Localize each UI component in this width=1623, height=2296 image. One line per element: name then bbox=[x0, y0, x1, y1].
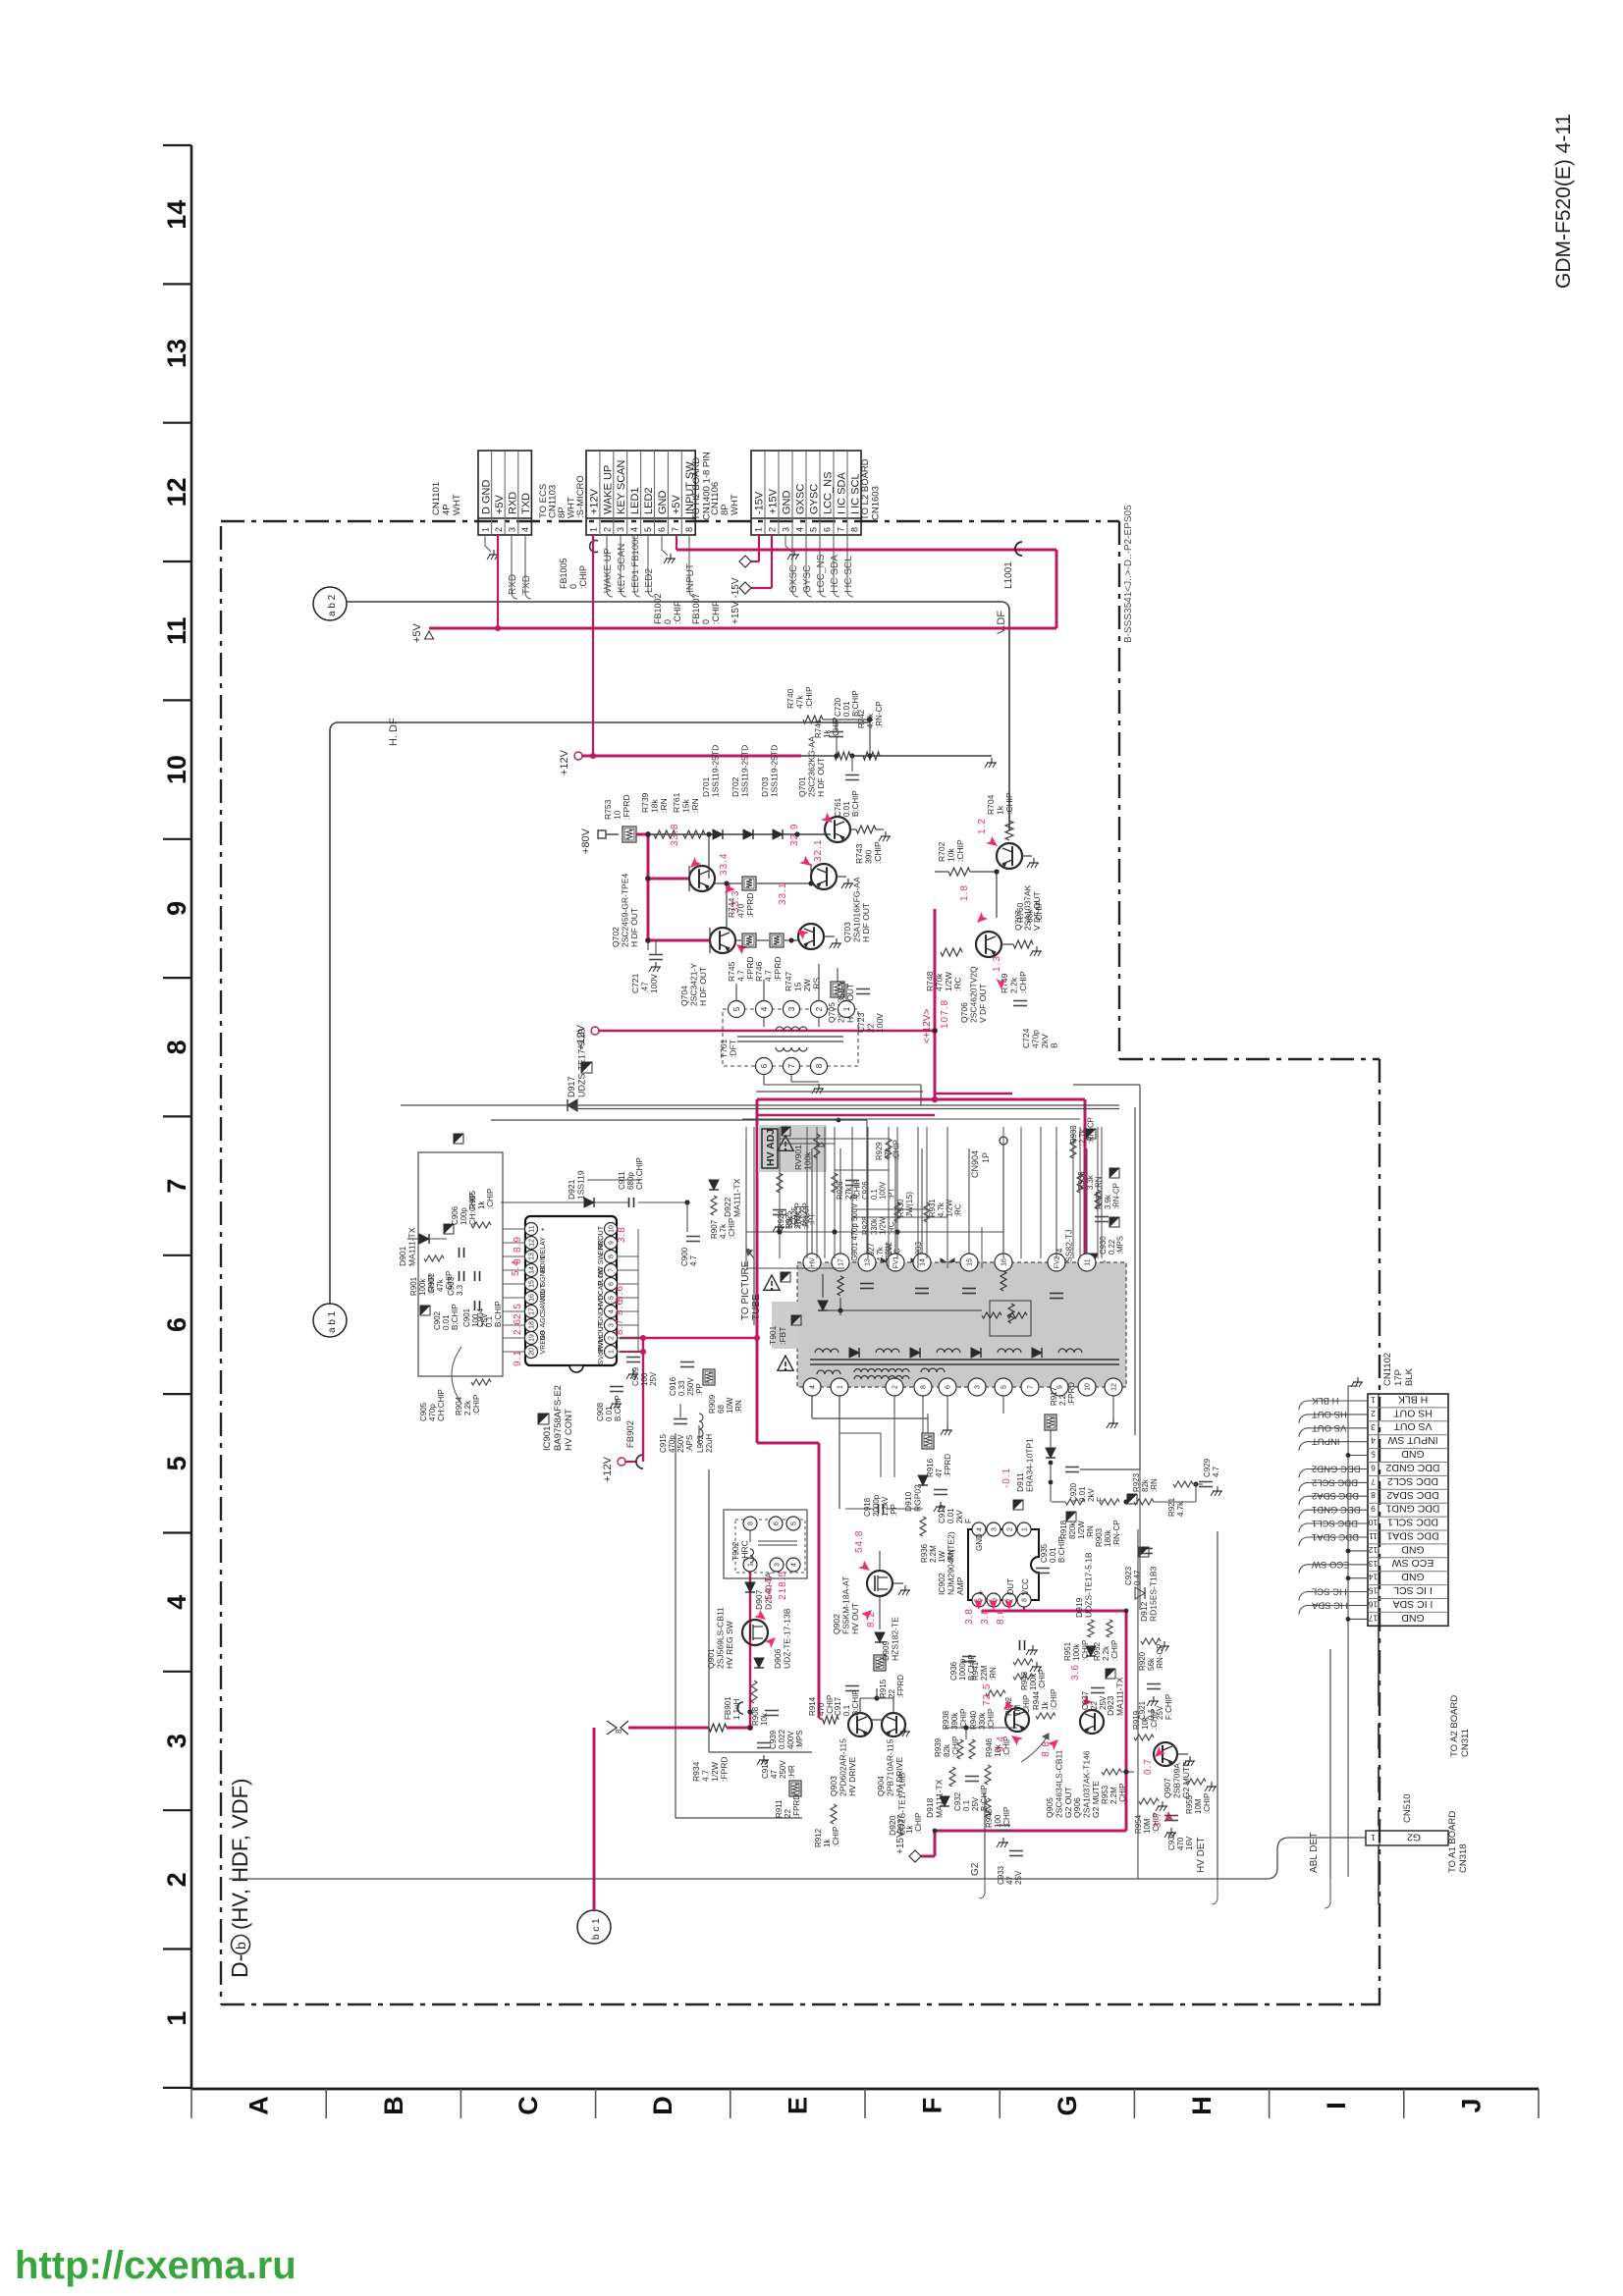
svg-text:Q902: Q902 bbox=[832, 1614, 841, 1634]
svg-text:H. DF: H. DF bbox=[388, 718, 400, 746]
svg-text:R951: R951 bbox=[1063, 1641, 1072, 1661]
svg-text:a b 2: a b 2 bbox=[327, 594, 338, 616]
svg-text:2: 2 bbox=[893, 1385, 899, 1389]
svg-text:100k: 100k bbox=[418, 1278, 427, 1296]
svg-text:-15V: -15V bbox=[754, 491, 766, 514]
svg-text:3: 3 bbox=[782, 527, 791, 532]
svg-text:GXSC: GXSC bbox=[795, 484, 807, 514]
svg-text:1: 1 bbox=[1022, 1527, 1029, 1531]
svg-text:3: 3 bbox=[775, 1563, 782, 1567]
svg-text::CHIP: :CHIP bbox=[1110, 1640, 1119, 1661]
svg-text:4.7k: 4.7k bbox=[719, 1223, 728, 1239]
svg-text:H DF OUT: H DF OUT bbox=[816, 758, 826, 797]
svg-text:3: 3 bbox=[975, 1385, 982, 1389]
svg-text:8: 8 bbox=[162, 1040, 191, 1054]
svg-text:18: 18 bbox=[529, 1321, 536, 1329]
svg-text:19: 19 bbox=[529, 1334, 536, 1342]
svg-text:7: 7 bbox=[1371, 1476, 1376, 1486]
svg-text:HV CONT: HV CONT bbox=[564, 1409, 574, 1451]
svg-text:11: 11 bbox=[1085, 1258, 1092, 1265]
svg-text:TO A2 BOARD: TO A2 BOARD bbox=[1449, 1695, 1460, 1757]
svg-text:1k: 1k bbox=[823, 729, 832, 738]
svg-text:FB1005: FB1005 bbox=[559, 558, 568, 589]
svg-text:2SJ569LS-CB11: 2SJ569LS-CB11 bbox=[716, 1607, 726, 1669]
svg-text:-: - bbox=[991, 1592, 1001, 1595]
svg-text::RC: :RC bbox=[953, 977, 963, 991]
svg-text:470k: 470k bbox=[935, 973, 945, 991]
svg-text:16V: 16V bbox=[1185, 1836, 1194, 1850]
svg-text:TO A1 BOARD: TO A1 BOARD bbox=[1447, 1811, 1458, 1873]
svg-text:B:CHIP: B:CHIP bbox=[451, 1304, 460, 1330]
svg-text:250V: 250V bbox=[779, 1760, 787, 1779]
svg-text:1k: 1k bbox=[1041, 1701, 1050, 1710]
svg-text:SG901 470p 500V :B: SG901 470p 500V :B bbox=[850, 1194, 859, 1266]
svg-text:R932: R932 bbox=[1095, 1191, 1104, 1209]
svg-text:LED1 FB1000: LED1 FB1000 bbox=[630, 534, 641, 593]
svg-text:17: 17 bbox=[839, 1258, 845, 1266]
svg-text:0.1: 0.1 bbox=[485, 1315, 494, 1327]
svg-text:0.01: 0.01 bbox=[1049, 1547, 1057, 1563]
svg-text:CN1102: CN1102 bbox=[1382, 1353, 1393, 1386]
svg-text:3.8: 3.8 bbox=[617, 1226, 627, 1243]
svg-text:1SS119-25TD: 1SS119-25TD bbox=[740, 745, 750, 797]
svg-text:D919: D919 bbox=[1074, 1597, 1084, 1618]
svg-text:4P: 4P bbox=[442, 504, 453, 515]
svg-text::CHIP: :CHIP bbox=[1150, 1709, 1159, 1730]
svg-text:Q905: Q905 bbox=[1045, 1797, 1055, 1818]
svg-text:C900: C900 bbox=[680, 1247, 689, 1266]
svg-text:B: B bbox=[1050, 1042, 1059, 1048]
svg-text:JW(1S): JW(1S) bbox=[905, 1192, 914, 1217]
svg-text:D921: D921 bbox=[567, 1179, 576, 1200]
svg-text:DDC SCL2: DDC SCL2 bbox=[1312, 1476, 1358, 1487]
svg-text:FB1007: FB1007 bbox=[691, 593, 701, 624]
svg-text:Q702: Q702 bbox=[611, 927, 621, 947]
svg-text:http://cxema.ru: http://cxema.ru bbox=[15, 2244, 297, 2287]
svg-text:1SS119-25TD: 1SS119-25TD bbox=[711, 745, 721, 797]
svg-text:R761: R761 bbox=[672, 792, 681, 813]
svg-text::FPRD: :FPRD bbox=[792, 1794, 801, 1818]
svg-text:Q901: Q901 bbox=[706, 1648, 716, 1669]
svg-text:218.5: 218.5 bbox=[778, 1571, 788, 1600]
svg-text:C926: C926 bbox=[861, 1181, 870, 1200]
svg-text:16: 16 bbox=[1001, 1258, 1008, 1266]
svg-text:HV REG SW: HV REG SW bbox=[725, 1621, 734, 1669]
svg-text::CHIP: :CHIP bbox=[1004, 792, 1014, 815]
svg-text::CHIP: :CHIP bbox=[673, 601, 682, 624]
svg-text:C923: C923 bbox=[1124, 1566, 1133, 1585]
svg-text:I IC SCL: I IC SCL bbox=[843, 556, 854, 593]
svg-text:TXD: TXD bbox=[520, 493, 532, 514]
svg-text::RS: :RS bbox=[812, 978, 822, 992]
svg-text:R938: R938 bbox=[942, 1710, 950, 1730]
svg-text:9: 9 bbox=[609, 1241, 616, 1245]
svg-text:3.6: 3.6 bbox=[1070, 1664, 1081, 1681]
svg-text::CHIP: :CHIP bbox=[1038, 1670, 1047, 1690]
svg-text:DDC SDA1: DDC SDA1 bbox=[1386, 1530, 1438, 1542]
svg-text:V.DF: V.DF bbox=[996, 611, 1007, 634]
svg-text:NC: NC bbox=[598, 1267, 605, 1277]
svg-text:C723: C723 bbox=[856, 1012, 866, 1033]
svg-text:IC901: IC901 bbox=[542, 1426, 553, 1451]
svg-text:R903: R903 bbox=[1095, 1527, 1104, 1547]
svg-text:R746: R746 bbox=[754, 961, 764, 982]
svg-text:1/2W: 1/2W bbox=[944, 972, 953, 991]
svg-text:0.01: 0.01 bbox=[605, 1406, 614, 1421]
svg-text:R915: R915 bbox=[879, 1679, 888, 1698]
svg-text:12: 12 bbox=[529, 1239, 536, 1247]
svg-text::CHIP: :CHIP bbox=[486, 1189, 495, 1209]
svg-text:4.7: 4.7 bbox=[701, 1770, 711, 1782]
svg-text:R744: R744 bbox=[727, 897, 736, 918]
svg-text:15: 15 bbox=[529, 1280, 536, 1288]
svg-text:82k: 82k bbox=[943, 1743, 951, 1757]
svg-text:10: 10 bbox=[1369, 1518, 1379, 1527]
svg-text:10k: 10k bbox=[994, 1743, 1002, 1757]
svg-text:C937: C937 bbox=[1081, 1690, 1090, 1710]
svg-text:MA111-TX: MA111-TX bbox=[732, 1178, 742, 1217]
svg-text:C901: C901 bbox=[462, 1308, 471, 1327]
svg-text:HVD: HVD bbox=[598, 1295, 605, 1309]
svg-text:100p: 100p bbox=[460, 1207, 468, 1225]
svg-text:R745: R745 bbox=[727, 961, 736, 982]
svg-text:3.8: 3.8 bbox=[980, 1608, 991, 1625]
svg-text::FPRD: :FPRD bbox=[773, 957, 783, 983]
svg-text::RN: :RN bbox=[989, 1667, 998, 1681]
svg-text::CHIP: :CHIP bbox=[951, 1736, 960, 1757]
svg-text:T902: T902 bbox=[730, 1541, 740, 1561]
svg-text:R740: R740 bbox=[785, 688, 795, 709]
svg-text:8.6: 8.6 bbox=[996, 1608, 1006, 1625]
svg-text:F:CHIP: F:CHIP bbox=[1164, 1694, 1173, 1720]
svg-text:470p: 470p bbox=[428, 1404, 437, 1421]
svg-text:DDC SCL2: DDC SCL2 bbox=[1387, 1475, 1438, 1487]
svg-text:R704: R704 bbox=[986, 794, 996, 815]
svg-text:3.8: 3.8 bbox=[964, 1608, 975, 1625]
svg-text:1/2W: 1/2W bbox=[946, 1199, 954, 1217]
svg-text:20: 20 bbox=[529, 1348, 536, 1356]
svg-text:10: 10 bbox=[613, 810, 622, 820]
svg-text:11: 11 bbox=[162, 616, 191, 645]
svg-text:15: 15 bbox=[793, 982, 803, 991]
svg-text:400V: 400V bbox=[786, 1731, 795, 1749]
svg-text:8: 8 bbox=[850, 527, 860, 532]
svg-text:4.7k: 4.7k bbox=[1176, 1501, 1185, 1517]
svg-text::RN: :RN bbox=[659, 798, 669, 813]
svg-text:1/2W: 1/2W bbox=[710, 1762, 720, 1782]
svg-text:54.8: 54.8 bbox=[854, 1530, 865, 1553]
svg-text:C917: C917 bbox=[834, 1696, 842, 1716]
svg-text:2: 2 bbox=[1007, 1527, 1014, 1531]
svg-text::MPS: :MPS bbox=[795, 1730, 804, 1749]
svg-text:I: I bbox=[1322, 2102, 1351, 2109]
svg-text:3: 3 bbox=[508, 527, 517, 532]
svg-text:68: 68 bbox=[717, 1405, 726, 1414]
svg-text:I IC SDA: I IC SDA bbox=[1393, 1598, 1434, 1610]
svg-text:4.7: 4.7 bbox=[764, 970, 774, 982]
svg-text:R955: R955 bbox=[1185, 1794, 1194, 1814]
svg-text:8.6: 8.6 bbox=[615, 1285, 625, 1302]
svg-text:100V: 100V bbox=[879, 1181, 888, 1200]
svg-text::FPRD: :FPRD bbox=[1067, 1382, 1076, 1406]
svg-text:4.7: 4.7 bbox=[1212, 1466, 1220, 1477]
svg-text:b: b bbox=[233, 1942, 248, 1949]
svg-text:0.33: 0.33 bbox=[677, 1380, 686, 1396]
svg-text:6: 6 bbox=[823, 527, 833, 532]
svg-text:FB902: FB902 bbox=[625, 1420, 636, 1448]
svg-text:3: 3 bbox=[1371, 1422, 1376, 1432]
svg-text:C932: C932 bbox=[953, 1791, 962, 1811]
svg-text:1: 1 bbox=[609, 1350, 616, 1354]
svg-text:2W: 2W bbox=[802, 979, 812, 991]
svg-text:.47: .47 bbox=[640, 982, 650, 993]
svg-text:14: 14 bbox=[162, 200, 191, 230]
svg-text:6: 6 bbox=[774, 1522, 781, 1525]
svg-text:C933: C933 bbox=[997, 1865, 1005, 1885]
svg-text::CHIP: :CHIP bbox=[1203, 1793, 1212, 1814]
svg-text:J: J bbox=[1456, 2098, 1486, 2112]
svg-text:1.3: 1.3 bbox=[992, 955, 1002, 972]
svg-text:6: 6 bbox=[760, 1063, 769, 1068]
svg-text:2.2M: 2.2M bbox=[1109, 1787, 1118, 1804]
svg-text:NJM2904M(TE2): NJM2904M(TE2) bbox=[947, 1531, 956, 1595]
svg-text:470: 470 bbox=[1176, 1837, 1185, 1850]
svg-text:+12V: +12V bbox=[589, 488, 601, 514]
svg-text:HS OUT: HS OUT bbox=[1393, 1407, 1433, 1418]
svg-text:FV2: FV2 bbox=[1055, 1255, 1061, 1268]
svg-text:G2 MUTE: G2 MUTE bbox=[1091, 1781, 1101, 1818]
svg-text:2000p: 2000p bbox=[872, 1494, 881, 1517]
svg-text:ABL DET: ABL DET bbox=[1309, 1833, 1320, 1873]
svg-text:1.1uH: 1.1uH bbox=[732, 1698, 741, 1720]
svg-text:1: 1 bbox=[480, 527, 490, 532]
svg-text:0.01: 0.01 bbox=[842, 701, 851, 717]
svg-text:BLK: BLK bbox=[1404, 1367, 1415, 1386]
svg-text:2: 2 bbox=[602, 527, 612, 532]
svg-text:R907: R907 bbox=[710, 1219, 719, 1239]
svg-text:WAKE UP: WAKE UP bbox=[603, 548, 614, 593]
svg-text:470p: 470p bbox=[1031, 1030, 1041, 1048]
svg-text:11: 11 bbox=[1369, 1531, 1378, 1541]
svg-text:47: 47 bbox=[770, 1770, 779, 1779]
svg-text:R742: R742 bbox=[857, 709, 866, 728]
svg-text:0.1: 0.1 bbox=[842, 1704, 851, 1716]
svg-text:KEY SCAN: KEY SCAN bbox=[617, 544, 627, 593]
svg-text:AGC: AGC bbox=[540, 1312, 547, 1327]
svg-text::CHIP: :CHIP bbox=[728, 1218, 736, 1239]
svg-text:13: 13 bbox=[529, 1253, 536, 1260]
svg-text:33.4: 33.4 bbox=[719, 853, 730, 876]
svg-text:C929: C929 bbox=[1203, 1458, 1212, 1477]
svg-text:HV DET: HV DET bbox=[1196, 1837, 1207, 1873]
svg-text:C721: C721 bbox=[630, 973, 640, 993]
svg-text:R901: R901 bbox=[409, 1276, 418, 1296]
svg-text:Q706: Q706 bbox=[959, 1002, 969, 1023]
svg-text:13: 13 bbox=[1369, 1559, 1379, 1569]
svg-text:3.9k: 3.9k bbox=[1104, 1195, 1112, 1209]
svg-text:R939: R939 bbox=[934, 1737, 943, 1757]
svg-text:DDC SCL1: DDC SCL1 bbox=[1312, 1518, 1358, 1528]
svg-text:13: 13 bbox=[162, 339, 191, 368]
svg-text:R953: R953 bbox=[1101, 1785, 1109, 1804]
svg-text:0.01: 0.01 bbox=[842, 801, 851, 817]
svg-text:+5V: +5V bbox=[671, 494, 682, 514]
svg-text:12: 12 bbox=[1369, 1545, 1379, 1555]
svg-text:HS OUT: HS OUT bbox=[1312, 1409, 1347, 1419]
svg-text:C908: C908 bbox=[596, 1402, 605, 1421]
svg-text:1: 1 bbox=[754, 527, 764, 532]
svg-text:2.2k: 2.2k bbox=[463, 1400, 472, 1415]
svg-text:INPUT SW: INPUT SW bbox=[1387, 1434, 1437, 1446]
svg-text:6: 6 bbox=[1371, 1464, 1376, 1473]
svg-text:0.1: 0.1 bbox=[962, 1799, 971, 1811]
svg-text:I IC SDA: I IC SDA bbox=[1311, 1600, 1348, 1611]
svg-text:IC902: IC902 bbox=[937, 1573, 947, 1595]
svg-text:D917: D917 bbox=[567, 1076, 576, 1097]
svg-text:ECO SW: ECO SW bbox=[1392, 1557, 1434, 1569]
svg-text:1.2kV: 1.2kV bbox=[881, 1496, 890, 1517]
svg-text:C936: C936 bbox=[949, 1661, 958, 1681]
svg-text:+: + bbox=[540, 1227, 547, 1231]
svg-text:CN311: CN311 bbox=[1460, 1729, 1471, 1757]
svg-text:10: 10 bbox=[1085, 1383, 1092, 1391]
svg-text:C720: C720 bbox=[834, 697, 842, 717]
svg-text:3: 3 bbox=[616, 527, 625, 532]
svg-text:G2: G2 bbox=[970, 1862, 981, 1876]
svg-text:2kV: 2kV bbox=[1087, 1488, 1096, 1502]
svg-text:100V: 100V bbox=[649, 974, 659, 993]
svg-text:DDC GND1: DDC GND1 bbox=[1385, 1503, 1439, 1515]
svg-text::CHIP: :CHIP bbox=[873, 841, 883, 864]
svg-text:1: 1 bbox=[1371, 1395, 1376, 1405]
svg-text:0.022: 0.022 bbox=[778, 1729, 786, 1749]
svg-text:1.8: 1.8 bbox=[959, 884, 970, 901]
svg-text:2.7k: 2.7k bbox=[1078, 1129, 1087, 1144]
svg-text:R918: R918 bbox=[1059, 1520, 1068, 1539]
svg-text:2SC2459-GR-TPE4: 2SC2459-GR-TPE4 bbox=[621, 874, 630, 947]
svg-text:5: 5 bbox=[809, 527, 819, 532]
svg-text:+5V: +5V bbox=[494, 494, 506, 514]
svg-text:18k: 18k bbox=[650, 799, 660, 813]
svg-text:WAKE UP: WAKE UP bbox=[602, 465, 614, 514]
svg-text:5: 5 bbox=[1001, 1385, 1008, 1389]
svg-text:4: 4 bbox=[760, 1006, 769, 1011]
svg-text:8: 8 bbox=[921, 1385, 928, 1389]
svg-text::CHIP: :CHIP bbox=[804, 686, 814, 709]
svg-text::CHIP: :CHIP bbox=[914, 1813, 923, 1834]
svg-text:DDC GND2: DDC GND2 bbox=[1312, 1464, 1361, 1474]
svg-text:390: 390 bbox=[864, 850, 874, 864]
svg-text:+80V: +80V bbox=[580, 828, 592, 854]
svg-text:10M: 10M bbox=[1194, 1798, 1203, 1814]
svg-text:R931: R931 bbox=[928, 1199, 937, 1217]
svg-text:250V: 250V bbox=[676, 1434, 685, 1453]
svg-text:12: 12 bbox=[1111, 1383, 1118, 1391]
svg-text:V DF OUT: V DF OUT bbox=[978, 984, 988, 1023]
svg-text::CHIP: :CHIP bbox=[1034, 900, 1044, 923]
svg-text:107.8: 107.8 bbox=[940, 999, 950, 1029]
svg-text:2.2M: 2.2M bbox=[929, 1545, 938, 1563]
svg-text::FPRD: :FPRD bbox=[720, 1757, 730, 1783]
svg-text:SVcc: SVcc bbox=[598, 1349, 605, 1365]
svg-text:7: 7 bbox=[671, 527, 680, 532]
svg-text:WHT: WHT bbox=[452, 494, 462, 515]
svg-text:FB901: FB901 bbox=[724, 1696, 732, 1720]
svg-text:R921: R921 bbox=[1167, 1497, 1176, 1517]
svg-text:7: 7 bbox=[1028, 1385, 1035, 1389]
svg-text:1k: 1k bbox=[477, 1201, 486, 1209]
svg-text:G2 MUTE: G2 MUTE bbox=[1181, 1761, 1191, 1798]
svg-text:R937: R937 bbox=[896, 1814, 905, 1834]
svg-text:250V: 250V bbox=[686, 1377, 695, 1396]
svg-text:54.4: 54.4 bbox=[764, 1577, 775, 1600]
svg-text:L902: L902 bbox=[696, 1435, 705, 1453]
svg-text:CN318: CN318 bbox=[1458, 1843, 1469, 1873]
svg-text:10M: 10M bbox=[1143, 1818, 1152, 1834]
svg-text:9: 9 bbox=[1371, 1504, 1376, 1514]
svg-text:TO L2 BOARD: TO L2 BOARD bbox=[860, 458, 871, 520]
svg-text:2SA1037AK-T146: 2SA1037AK-T146 bbox=[1082, 1750, 1092, 1818]
svg-text:100: 100 bbox=[640, 1372, 649, 1386]
svg-text:R917: R917 bbox=[1050, 1386, 1058, 1406]
svg-text:4.7k: 4.7k bbox=[937, 1202, 946, 1217]
svg-text:1k: 1k bbox=[823, 1839, 832, 1847]
svg-text:2SC3421-Y: 2SC3421-Y bbox=[689, 963, 699, 1006]
svg-text:7: 7 bbox=[837, 527, 846, 532]
svg-text:25V: 25V bbox=[649, 1371, 658, 1386]
svg-text:R919: R919 bbox=[1132, 1710, 1141, 1730]
svg-text:2kV: 2kV bbox=[1040, 1034, 1050, 1048]
svg-text::FPRD: :FPRD bbox=[944, 1454, 952, 1477]
svg-text:2.6: 2.6 bbox=[513, 1318, 523, 1335]
svg-text:DELAY: DELAY bbox=[540, 1237, 547, 1259]
svg-text:4: 4 bbox=[795, 527, 805, 532]
svg-text:R743: R743 bbox=[854, 843, 864, 864]
svg-text:14: 14 bbox=[1369, 1573, 1379, 1582]
svg-text:2SB709A: 2SB709A bbox=[1172, 1763, 1182, 1798]
svg-text:8: 8 bbox=[748, 1522, 755, 1525]
svg-text:15k: 15k bbox=[681, 799, 691, 813]
svg-text:+5V: +5V bbox=[411, 622, 423, 643]
svg-text:6: 6 bbox=[946, 1385, 952, 1389]
svg-text::FPRD: :FPRD bbox=[896, 1675, 905, 1698]
svg-text::CHIP: :CHIP bbox=[1050, 1689, 1058, 1710]
svg-text:L1001: L1001 bbox=[1003, 561, 1014, 589]
svg-text:VS OUT: VS OUT bbox=[1393, 1420, 1433, 1432]
svg-text:R748: R748 bbox=[925, 971, 935, 991]
svg-text:+12V: +12V bbox=[602, 1456, 614, 1482]
svg-text:GND: GND bbox=[782, 491, 793, 515]
svg-text::DFT: :DFT bbox=[729, 1040, 738, 1058]
svg-text:5: 5 bbox=[1371, 1450, 1376, 1460]
svg-text:NC: NC bbox=[598, 1240, 605, 1250]
svg-text:1SS119: 1SS119 bbox=[576, 1170, 586, 1200]
svg-text::RN-CP: :RN-CP bbox=[1112, 1183, 1121, 1209]
svg-text:I IC SCL: I IC SCL bbox=[1312, 1586, 1347, 1597]
svg-text:D922: D922 bbox=[723, 1197, 732, 1217]
svg-text:6: 6 bbox=[657, 527, 667, 532]
svg-text:72.5: 72.5 bbox=[982, 1683, 993, 1706]
svg-text:+15V -15V: +15V -15V bbox=[730, 577, 741, 624]
svg-text:F: F bbox=[964, 1519, 973, 1523]
svg-text:R747: R747 bbox=[784, 971, 793, 991]
svg-text:4.7: 4.7 bbox=[736, 970, 746, 982]
svg-text:DDC GND2: DDC GND2 bbox=[1385, 1462, 1439, 1473]
svg-text:8.7: 8.7 bbox=[615, 1318, 625, 1335]
svg-text:C906: C906 bbox=[451, 1205, 460, 1225]
svg-text:E: E bbox=[783, 2097, 812, 2114]
svg-text:SAWOUT: SAWOUT bbox=[540, 1283, 547, 1313]
